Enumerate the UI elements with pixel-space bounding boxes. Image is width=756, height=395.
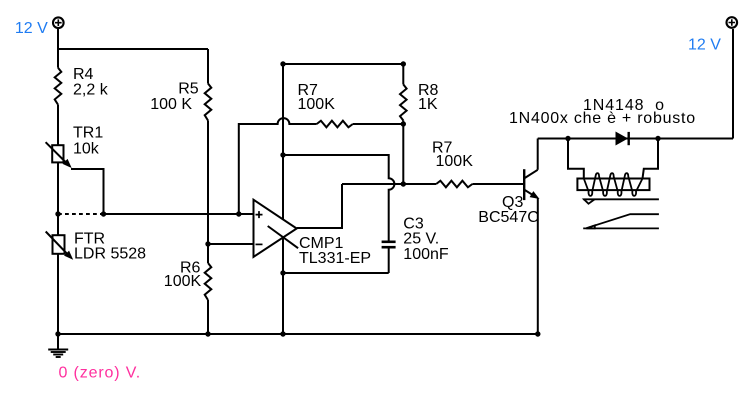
relay contact NO line — [586, 214, 659, 228]
node wiper dot — [101, 211, 106, 216]
wire node dashed segment — [58, 213, 104, 215]
transistor Q2 Q3 — [524, 169, 538, 200]
resistor R8 — [400, 84, 407, 120]
relay coil winding — [584, 173, 643, 196]
wire emitter vertical — [537, 199, 539, 335]
wire node to plus input — [104, 213, 254, 215]
node C3 top tap dot — [280, 152, 285, 157]
wire base line — [472, 183, 524, 185]
svg-text:2,2 k: 2,2 k — [73, 81, 109, 98]
wire top left horizontal — [58, 48, 208, 50]
node relay right dot — [655, 136, 660, 141]
svg-text:100K: 100K — [164, 273, 202, 290]
svg-text:100K: 100K — [298, 96, 336, 113]
node rail emitter dot — [535, 331, 540, 336]
wire R8 column top — [402, 64, 404, 84]
resistor R6 — [205, 263, 212, 300]
svg-text:TR1: TR1 — [73, 125, 103, 142]
svg-text:10k: 10k — [73, 141, 100, 158]
svg-text:12 V: 12 V — [688, 37, 721, 54]
svg-text:1N400x che è + robusto: 1N400x che è + robusto — [509, 110, 696, 127]
wire ground stub — [57, 334, 59, 350]
wire left column lower — [57, 105, 59, 334]
node C3 bottom tap dot — [280, 270, 285, 275]
node R8 top dot — [401, 61, 406, 66]
wire left column — [57, 29, 59, 68]
wire C3 bottom stub — [388, 248, 390, 273]
wire relay left drop — [568, 139, 584, 179]
wire top right horizontal — [538, 138, 733, 140]
resistor R7 first — [317, 121, 353, 128]
relay contact common line — [583, 199, 659, 228]
svg-text:100 K: 100 K — [150, 96, 192, 113]
svg-text:100K: 100K — [436, 153, 474, 170]
wire R7a right — [353, 123, 404, 125]
wire collector vertical — [537, 139, 539, 170]
relay contact arrow bottom — [586, 225, 595, 228]
wire vertical mid column — [282, 64, 284, 334]
wire R6 bottom — [207, 300, 209, 334]
trimmer TR1 body — [46, 142, 71, 167]
wire R5 column top — [207, 49, 209, 84]
node plus input dot — [236, 211, 241, 216]
resistor R5 — [205, 84, 212, 121]
svg-text:BC547C: BC547C — [478, 209, 538, 226]
relay coil box — [577, 179, 649, 191]
relay contact arrow top — [584, 199, 595, 203]
svg-text:100nF: 100nF — [403, 246, 449, 263]
resistor R7 second — [436, 181, 472, 188]
wire R8 bottom to output node — [402, 121, 404, 185]
svg-text:0 (zero) V.: 0 (zero) V. — [59, 364, 142, 381]
node R8 bottom dot — [401, 121, 406, 126]
svg-text:TL331-EP: TL331-EP — [299, 250, 371, 267]
photoresistor FTR body — [46, 232, 72, 259]
ground — [48, 350, 68, 358]
wire relay right drop — [643, 139, 659, 179]
svg-text:12 V: 12 V — [15, 20, 48, 37]
node top feedback left dot — [280, 61, 285, 66]
wire minus input — [208, 243, 254, 245]
wire R7a left with hop — [239, 118, 317, 214]
node minus input dot — [205, 241, 210, 246]
wire C3 bottom return — [283, 272, 389, 274]
diode D1 1N4148 — [616, 132, 629, 145]
svg-text:1K: 1K — [418, 96, 438, 113]
node output dot — [401, 181, 406, 186]
relay contact bottom line — [583, 227, 659, 229]
wire R5-R6 column — [207, 121, 209, 264]
capacitor C3 — [382, 242, 396, 247]
node rail R6 dot — [205, 331, 210, 336]
node left dot — [55, 211, 60, 216]
op-amp U1 CMP1 triangle — [254, 200, 299, 257]
wire top feedback line — [283, 63, 403, 65]
terminal +12V right — [727, 17, 738, 28]
wire C3 top feed with hop — [283, 155, 394, 241]
node rail mid dot — [280, 331, 285, 336]
wire bottom rail — [58, 333, 538, 335]
node ground dot — [55, 331, 60, 336]
wire output line — [342, 183, 436, 185]
svg-text:LDR 5528: LDR 5528 — [74, 246, 146, 263]
wire TR1 wiper — [71, 169, 104, 214]
resistor R4 — [55, 68, 62, 105]
node relay left dot — [565, 136, 570, 141]
wire op-amp output — [297, 184, 342, 228]
wire right terminal column — [732, 29, 734, 139]
terminal +12V left — [53, 17, 64, 28]
